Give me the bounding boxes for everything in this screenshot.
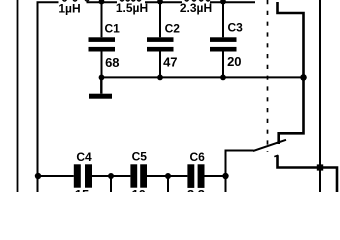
node junction dot between C5 and C6 bbox=[165, 173, 171, 179]
capacitor C3 bbox=[210, 37, 237, 51]
node junction dot top at C1 bbox=[99, 0, 105, 5]
wire C1 lower lead bbox=[101, 52, 103, 78]
wire bottom segment C4 to C5 bbox=[92, 175, 130, 177]
capacitor C1 bbox=[89, 37, 116, 51]
wire C2 upper lead bbox=[159, 2, 161, 37]
inductor L2 1.5uH (coil bottom arcs, cut off at top) bbox=[120, 0, 141, 1]
svg-text:2.3µH: 2.3µH bbox=[180, 1, 212, 15]
wire ground stub bbox=[100, 77, 102, 93]
wire bottom segment C6 to switch branch bbox=[205, 175, 226, 177]
wire drop below junction C5-C6 bbox=[167, 176, 169, 192]
svg-text:1.5µH: 1.5µH bbox=[116, 1, 148, 15]
wire input riser with top-left corner bbox=[38, 2, 59, 192]
svg-text:10: 10 bbox=[131, 187, 145, 192]
capacitor C5 bbox=[130, 164, 147, 187]
wire bottom line left segment bbox=[38, 175, 74, 177]
node junction dot bottom at input riser bbox=[35, 173, 41, 179]
svg-text:68: 68 bbox=[105, 55, 119, 70]
svg-text:C1: C1 bbox=[105, 21, 121, 35]
svg-text:C6: C6 bbox=[190, 150, 206, 164]
wire C1 upper lead bbox=[101, 2, 103, 37]
capacitor C4 bbox=[74, 164, 92, 187]
node junction dot output at right border bbox=[317, 164, 323, 170]
wire top segment L3 to switch contact end bbox=[210, 1, 255, 3]
wire left border vertical bbox=[17, 0, 19, 192]
wire drop below junction C4-C5 bbox=[110, 176, 112, 192]
svg-text:1µH: 1µH bbox=[58, 2, 80, 16]
wire C3 upper lead bbox=[222, 2, 224, 37]
svg-text:C5: C5 bbox=[132, 149, 148, 163]
dashed gang link line bbox=[267, 0, 269, 152]
capacitor C6 bbox=[187, 164, 204, 188]
node junction dot between C4 and C5 bbox=[108, 173, 114, 179]
svg-text:15: 15 bbox=[75, 187, 89, 192]
capacitor C2 bbox=[147, 37, 174, 51]
switch S1a wiper arm bbox=[253, 140, 286, 151]
node junction dot bus at C1 bbox=[99, 75, 105, 81]
wire C2 lower lead bbox=[159, 52, 161, 78]
node junction dot top at C3 bbox=[220, 0, 226, 5]
wire bottom segment C5 to C6 bbox=[147, 175, 187, 177]
svg-text:C2: C2 bbox=[165, 21, 181, 35]
svg-text:3.3: 3.3 bbox=[187, 187, 205, 192]
wire top segment L1 to L2 bbox=[87, 1, 118, 3]
node junction dot at switch branch bbox=[222, 173, 228, 179]
ground bbox=[89, 94, 112, 99]
switch S1b wiper tip bbox=[274, 155, 278, 156]
switch S1a pole wire (bold zig-zag from top) bbox=[278, 2, 304, 144]
inductor L1 1uH (coil bottom arcs, cut off at top) bbox=[63, 0, 90, 1]
svg-text:20: 20 bbox=[227, 54, 241, 69]
node junction dot bus at C3 bbox=[220, 75, 226, 81]
switch S1b pole stub and bold output wire to bottom right bbox=[278, 155, 338, 192]
svg-text:C4: C4 bbox=[76, 150, 92, 164]
node junction dot bus right end bbox=[300, 74, 307, 81]
node junction dot bus at C2 bbox=[157, 75, 163, 81]
svg-text:47: 47 bbox=[163, 54, 177, 69]
inductor L3 2.3uH (coil bottom arcs, cut off at top) bbox=[185, 0, 210, 1]
wire ground bus horizontal bbox=[102, 76, 304, 78]
wire right border vertical bbox=[319, 0, 321, 192]
wire top segment L2 to L3 bbox=[145, 1, 182, 3]
wire C3 lower lead bbox=[222, 52, 224, 78]
svg-text:C3: C3 bbox=[228, 21, 244, 35]
node junction dot top at C2 bbox=[157, 0, 163, 5]
wire switch contact riser (corner at 226,150.5) and drop to bottom edge bbox=[226, 150, 254, 193]
